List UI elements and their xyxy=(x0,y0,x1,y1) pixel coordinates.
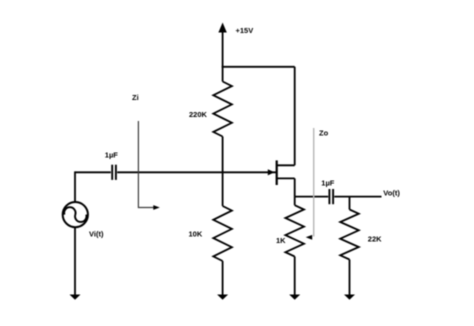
resistor 220K xyxy=(213,82,232,137)
ground (1K) xyxy=(289,295,300,300)
wire 1K top lead xyxy=(294,197,296,206)
wire output node left xyxy=(295,196,329,198)
wire divider mid (220K bottom to 10K top, crosses gate wire) xyxy=(222,137,224,207)
Zi indicator arrowhead xyxy=(153,205,160,210)
svg-text:Vo(t): Vo(t) xyxy=(383,188,400,197)
svg-text:220K: 220K xyxy=(189,110,208,119)
wire input bend down xyxy=(74,171,76,202)
transistor Q1 drain lead xyxy=(277,164,295,166)
wire 220K top lead xyxy=(222,67,224,82)
wire 1K bottom lead xyxy=(294,257,296,296)
svg-text:Zo: Zo xyxy=(319,129,329,138)
transistor Q1 gate arrowhead xyxy=(268,169,275,175)
svg-text:+15V: +15V xyxy=(236,26,254,35)
transistor Q1 source lead xyxy=(277,177,295,179)
Zo indicator arrowhead xyxy=(306,235,313,240)
wire 22K bottom lead xyxy=(349,260,351,296)
power +15V arrow xyxy=(222,31,224,68)
transistor Q1 channel bar xyxy=(276,160,278,185)
wire output node right to Vo xyxy=(334,196,381,198)
svg-text:1µF: 1µF xyxy=(105,150,118,159)
wire 10K bottom lead xyxy=(222,261,224,296)
resistor 10K xyxy=(213,206,232,261)
source Vi(t) sine xyxy=(64,207,86,222)
source Vi(t) circle xyxy=(63,202,88,227)
svg-text:22K: 22K xyxy=(368,235,382,244)
svg-text:1K: 1K xyxy=(276,236,286,245)
wire 22K top lead xyxy=(349,197,351,210)
svg-text:Zi: Zi xyxy=(132,93,139,102)
wire source bottom lead xyxy=(74,227,76,295)
ground (10K) xyxy=(217,295,228,300)
wire drain vertical xyxy=(294,67,296,166)
resistor 22K xyxy=(340,210,359,260)
resistor 1K xyxy=(285,205,304,256)
wire gate xyxy=(117,171,277,173)
wire source vertical xyxy=(294,178,296,196)
Zi indicator line xyxy=(138,121,155,208)
ground (source) xyxy=(70,295,81,300)
Zo indicator line xyxy=(313,128,315,237)
wire top rail xyxy=(222,66,295,68)
svg-text:Vi(t): Vi(t) xyxy=(89,230,104,239)
wire input top (source to cap to gate) xyxy=(75,171,111,173)
capacitor C2 1uF (output) xyxy=(328,189,330,204)
svg-text:1µF: 1µF xyxy=(321,179,334,188)
capacitor C1 1uF (input) xyxy=(111,165,113,180)
ground (22K) xyxy=(344,295,355,300)
svg-text:10K: 10K xyxy=(189,230,203,239)
